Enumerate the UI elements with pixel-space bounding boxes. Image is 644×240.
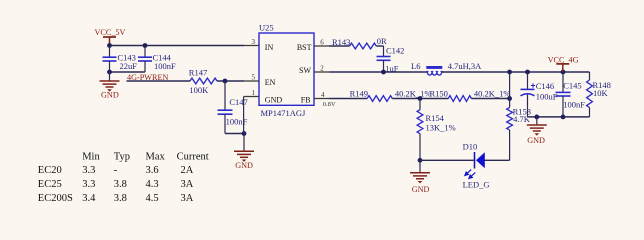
capacitor C144 [144, 46, 146, 58]
wire pin1 drop [243, 97, 245, 134]
node junction at GND tap [107, 70, 112, 75]
svg-text:5: 5 [252, 73, 256, 81]
svg-text:1: 1 [252, 89, 256, 97]
wire down to C147 [224, 81, 226, 110]
svg-text:3.8: 3.8 [114, 193, 127, 204]
wire 4G-PWREN to R147 [127, 80, 191, 82]
wire output cap bottoms [528, 116, 590, 118]
svg-text:3A: 3A [181, 193, 194, 204]
svg-text:4.7uH,3A: 4.7uH,3A [448, 61, 482, 71]
svg-text:C146: C146 [536, 81, 554, 91]
svg-text:SW: SW [299, 66, 311, 75]
svg-text:R150: R150 [430, 89, 448, 99]
svg-text:40.2K_1%: 40.2K_1% [474, 89, 511, 99]
node junction at C143 top [107, 43, 112, 48]
svg-text:Max: Max [146, 152, 166, 163]
node junction at C144 top [143, 43, 148, 48]
svg-text:GND: GND [265, 96, 283, 105]
svg-text:40.2K_1%: 40.2K_1% [395, 89, 432, 99]
svg-text:13K_1%: 13K_1% [426, 123, 456, 133]
node junction C145 bottom [561, 115, 566, 120]
svg-text:4.3: 4.3 [146, 179, 159, 190]
ground GND (output) [527, 124, 547, 126]
svg-text:Min: Min [82, 152, 100, 163]
svg-text:100nF: 100nF [226, 117, 248, 127]
resistor R150 [448, 96, 471, 102]
wire R149 to R150 [392, 98, 448, 100]
svg-text:3.8: 3.8 [114, 179, 127, 190]
wire R143 to C142 [376, 45, 383, 47]
wire LED row [420, 159, 475, 161]
resistor R153 [509, 72, 511, 108]
svg-text:4: 4 [321, 91, 325, 99]
svg-text:3: 3 [252, 38, 256, 46]
wire capacitor bottoms [110, 71, 146, 73]
ground GND (LED) [410, 172, 430, 174]
svg-text:EC200S: EC200S [38, 193, 73, 204]
inductor L6 [426, 66, 442, 69]
wire GND stem (C147) [243, 134, 245, 152]
svg-text:10K: 10K [593, 88, 609, 98]
svg-text:EN: EN [265, 78, 276, 87]
node junction C142/SW [381, 70, 386, 75]
ground GND (C143/C144) [100, 80, 120, 82]
wire SW to L6 [329, 71, 427, 73]
svg-text:C142: C142 [386, 45, 404, 55]
resistor R147 [190, 78, 217, 84]
svg-text:EC25: EC25 [38, 179, 62, 190]
svg-text:2A: 2A [181, 165, 194, 176]
svg-text:Typ: Typ [114, 152, 130, 163]
node junction C145/VCC_4G [561, 70, 566, 75]
wire C147 bottom to GND pin drop [225, 133, 244, 135]
svg-text:4.5: 4.5 [146, 193, 159, 204]
node junction R153 top [507, 96, 512, 101]
svg-text:0R: 0R [377, 36, 387, 46]
wire GND stem (LED) [419, 160, 421, 173]
wire R147 to pin EN [217, 80, 244, 82]
node junction FB divider [418, 96, 423, 101]
svg-text:3A: 3A [181, 179, 194, 190]
svg-text:-: - [114, 165, 118, 176]
node junction C146 top [525, 70, 530, 75]
svg-text:C147: C147 [229, 97, 247, 107]
svg-text:IN: IN [265, 43, 274, 52]
diode D10 LED [474, 152, 476, 169]
wire GND stem [109, 72, 111, 81]
svg-text:GND: GND [527, 136, 545, 145]
svg-text:C145: C145 [563, 81, 581, 91]
wire R150 to Vout branch [471, 98, 509, 100]
wire FB to R149 [329, 98, 367, 100]
resistor R143 [350, 43, 377, 49]
svg-text:2: 2 [320, 64, 324, 72]
svg-text:3.3: 3.3 [82, 179, 95, 190]
svg-text:3.3: 3.3 [82, 165, 95, 176]
svg-text:GND: GND [412, 185, 430, 194]
pin 2 stub [314, 71, 329, 73]
resistor R154 [419, 99, 421, 110]
svg-text:R149: R149 [350, 88, 368, 98]
capacitor C146 (polarized) [527, 72, 529, 89]
svg-text:GND: GND [101, 91, 119, 100]
pin 1 stub [244, 96, 259, 98]
svg-text:U25: U25 [259, 23, 274, 33]
node junction Vout/R153 branch [507, 70, 512, 75]
svg-text:BST: BST [297, 43, 312, 52]
wire BST to R143 [329, 45, 350, 47]
capacitor C142 [383, 46, 385, 57]
svg-text:0.8V: 0.8V [323, 101, 336, 108]
pin 5 stub [244, 80, 259, 82]
node junction LED cathode/GND [418, 158, 423, 163]
svg-text:FB: FB [301, 96, 311, 105]
svg-text:R147: R147 [189, 67, 207, 77]
svg-text:D10: D10 [463, 141, 478, 151]
svg-text:MP1471AGJ: MP1471AGJ [261, 108, 307, 118]
pin 3 stub [244, 45, 259, 47]
ground GND (C147) [234, 150, 254, 152]
node junction EN/C147 [223, 79, 228, 84]
svg-text:100nF: 100nF [154, 61, 176, 71]
wire L6 to VCC_4G rail [442, 71, 590, 73]
node junction C147/GND [242, 131, 247, 136]
svg-text:R143: R143 [332, 37, 350, 47]
op-amp U25 body [259, 33, 314, 105]
svg-text:EC20: EC20 [38, 165, 62, 176]
capacitor C143 [109, 46, 111, 58]
svg-text:LED_G: LED_G [463, 180, 490, 190]
svg-text:22uF: 22uF [120, 61, 138, 71]
svg-text:3.6: 3.6 [146, 165, 159, 176]
resistor R148 [589, 72, 591, 80]
resistor R149 [367, 96, 392, 102]
wire GND stem (output) [536, 117, 538, 125]
svg-text:GND: GND [235, 161, 253, 170]
node junction GND tap (output) [534, 115, 539, 120]
svg-text:100K: 100K [189, 85, 209, 95]
svg-text:6: 6 [320, 38, 324, 46]
svg-text:100nF: 100nF [563, 100, 585, 110]
capacitor C147 [218, 109, 233, 111]
svg-text:100uF: 100uF [536, 92, 558, 102]
pin 4 stub [314, 98, 329, 100]
svg-text:Current: Current [177, 152, 209, 163]
svg-text:3.4: 3.4 [82, 193, 96, 204]
svg-text:VCC_4G: VCC_4G [548, 55, 579, 64]
pin 6 stub [314, 45, 329, 47]
svg-text:L6: L6 [411, 61, 420, 71]
svg-text:VCC_5V: VCC_5V [95, 28, 126, 37]
wire VCC_5V rail to pin IN [110, 45, 245, 47]
capacitor C145 [562, 72, 564, 92]
